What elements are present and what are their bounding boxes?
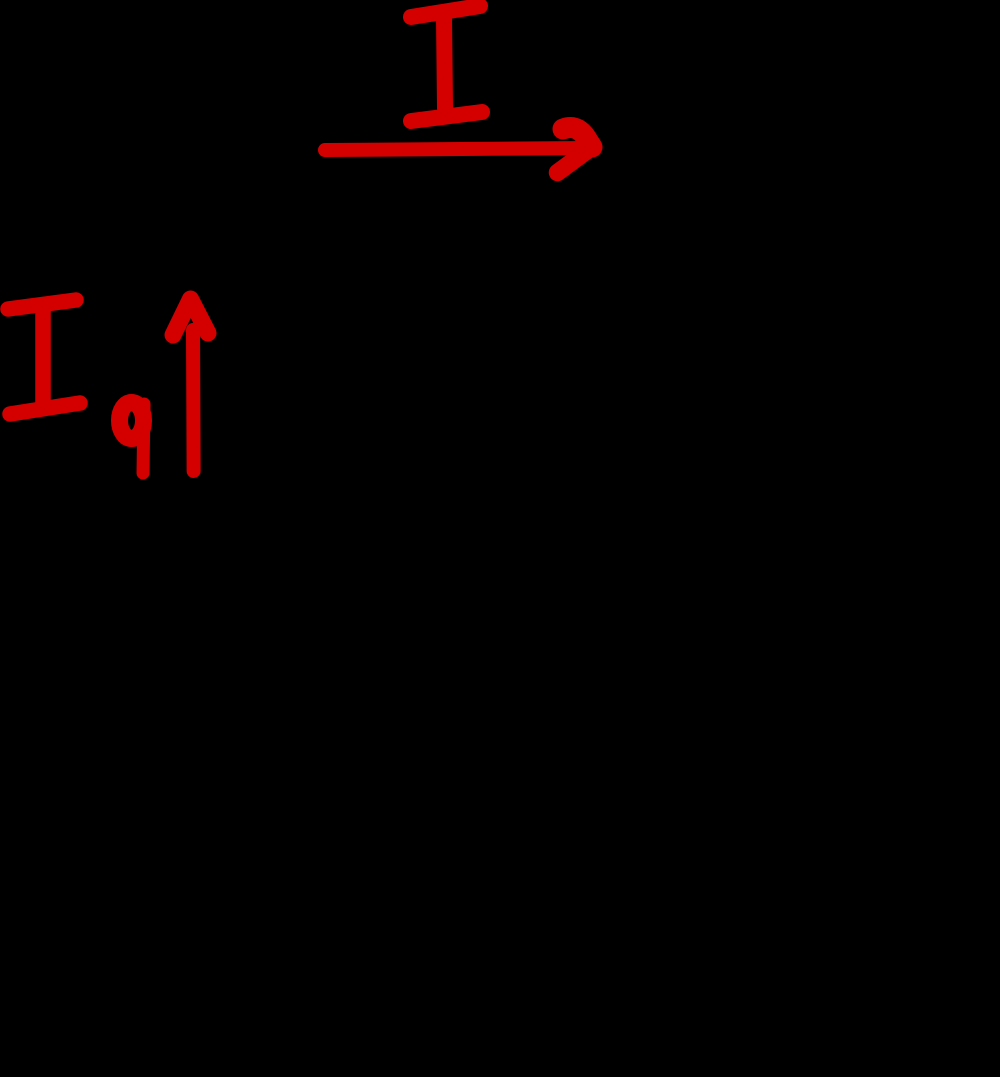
current arrow Iq (vertical, pointing up) [173,299,208,471]
current arrow I (horizontal, pointing right) [325,128,592,173]
current label I (top, hand-drawn capital I) [411,6,482,121]
current label Iq (left, hand-drawn capital I) [8,300,80,414]
subscript q of label Iq [120,403,145,474]
